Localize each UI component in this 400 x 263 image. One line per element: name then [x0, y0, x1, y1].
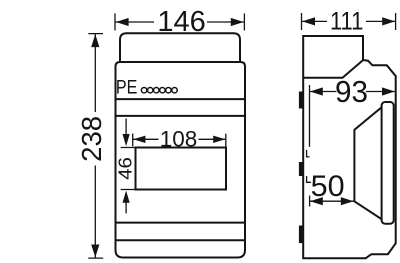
svg-text:111: 111 [330, 8, 364, 36]
svg-text:46: 46 [115, 157, 136, 180]
svg-text:PE: PE [116, 78, 137, 99]
svg-text:108: 108 [160, 127, 198, 152]
svg-text:93: 93 [335, 75, 368, 109]
svg-text:238: 238 [76, 116, 107, 162]
svg-text:146: 146 [157, 6, 205, 38]
svg-text:50: 50 [311, 170, 345, 203]
